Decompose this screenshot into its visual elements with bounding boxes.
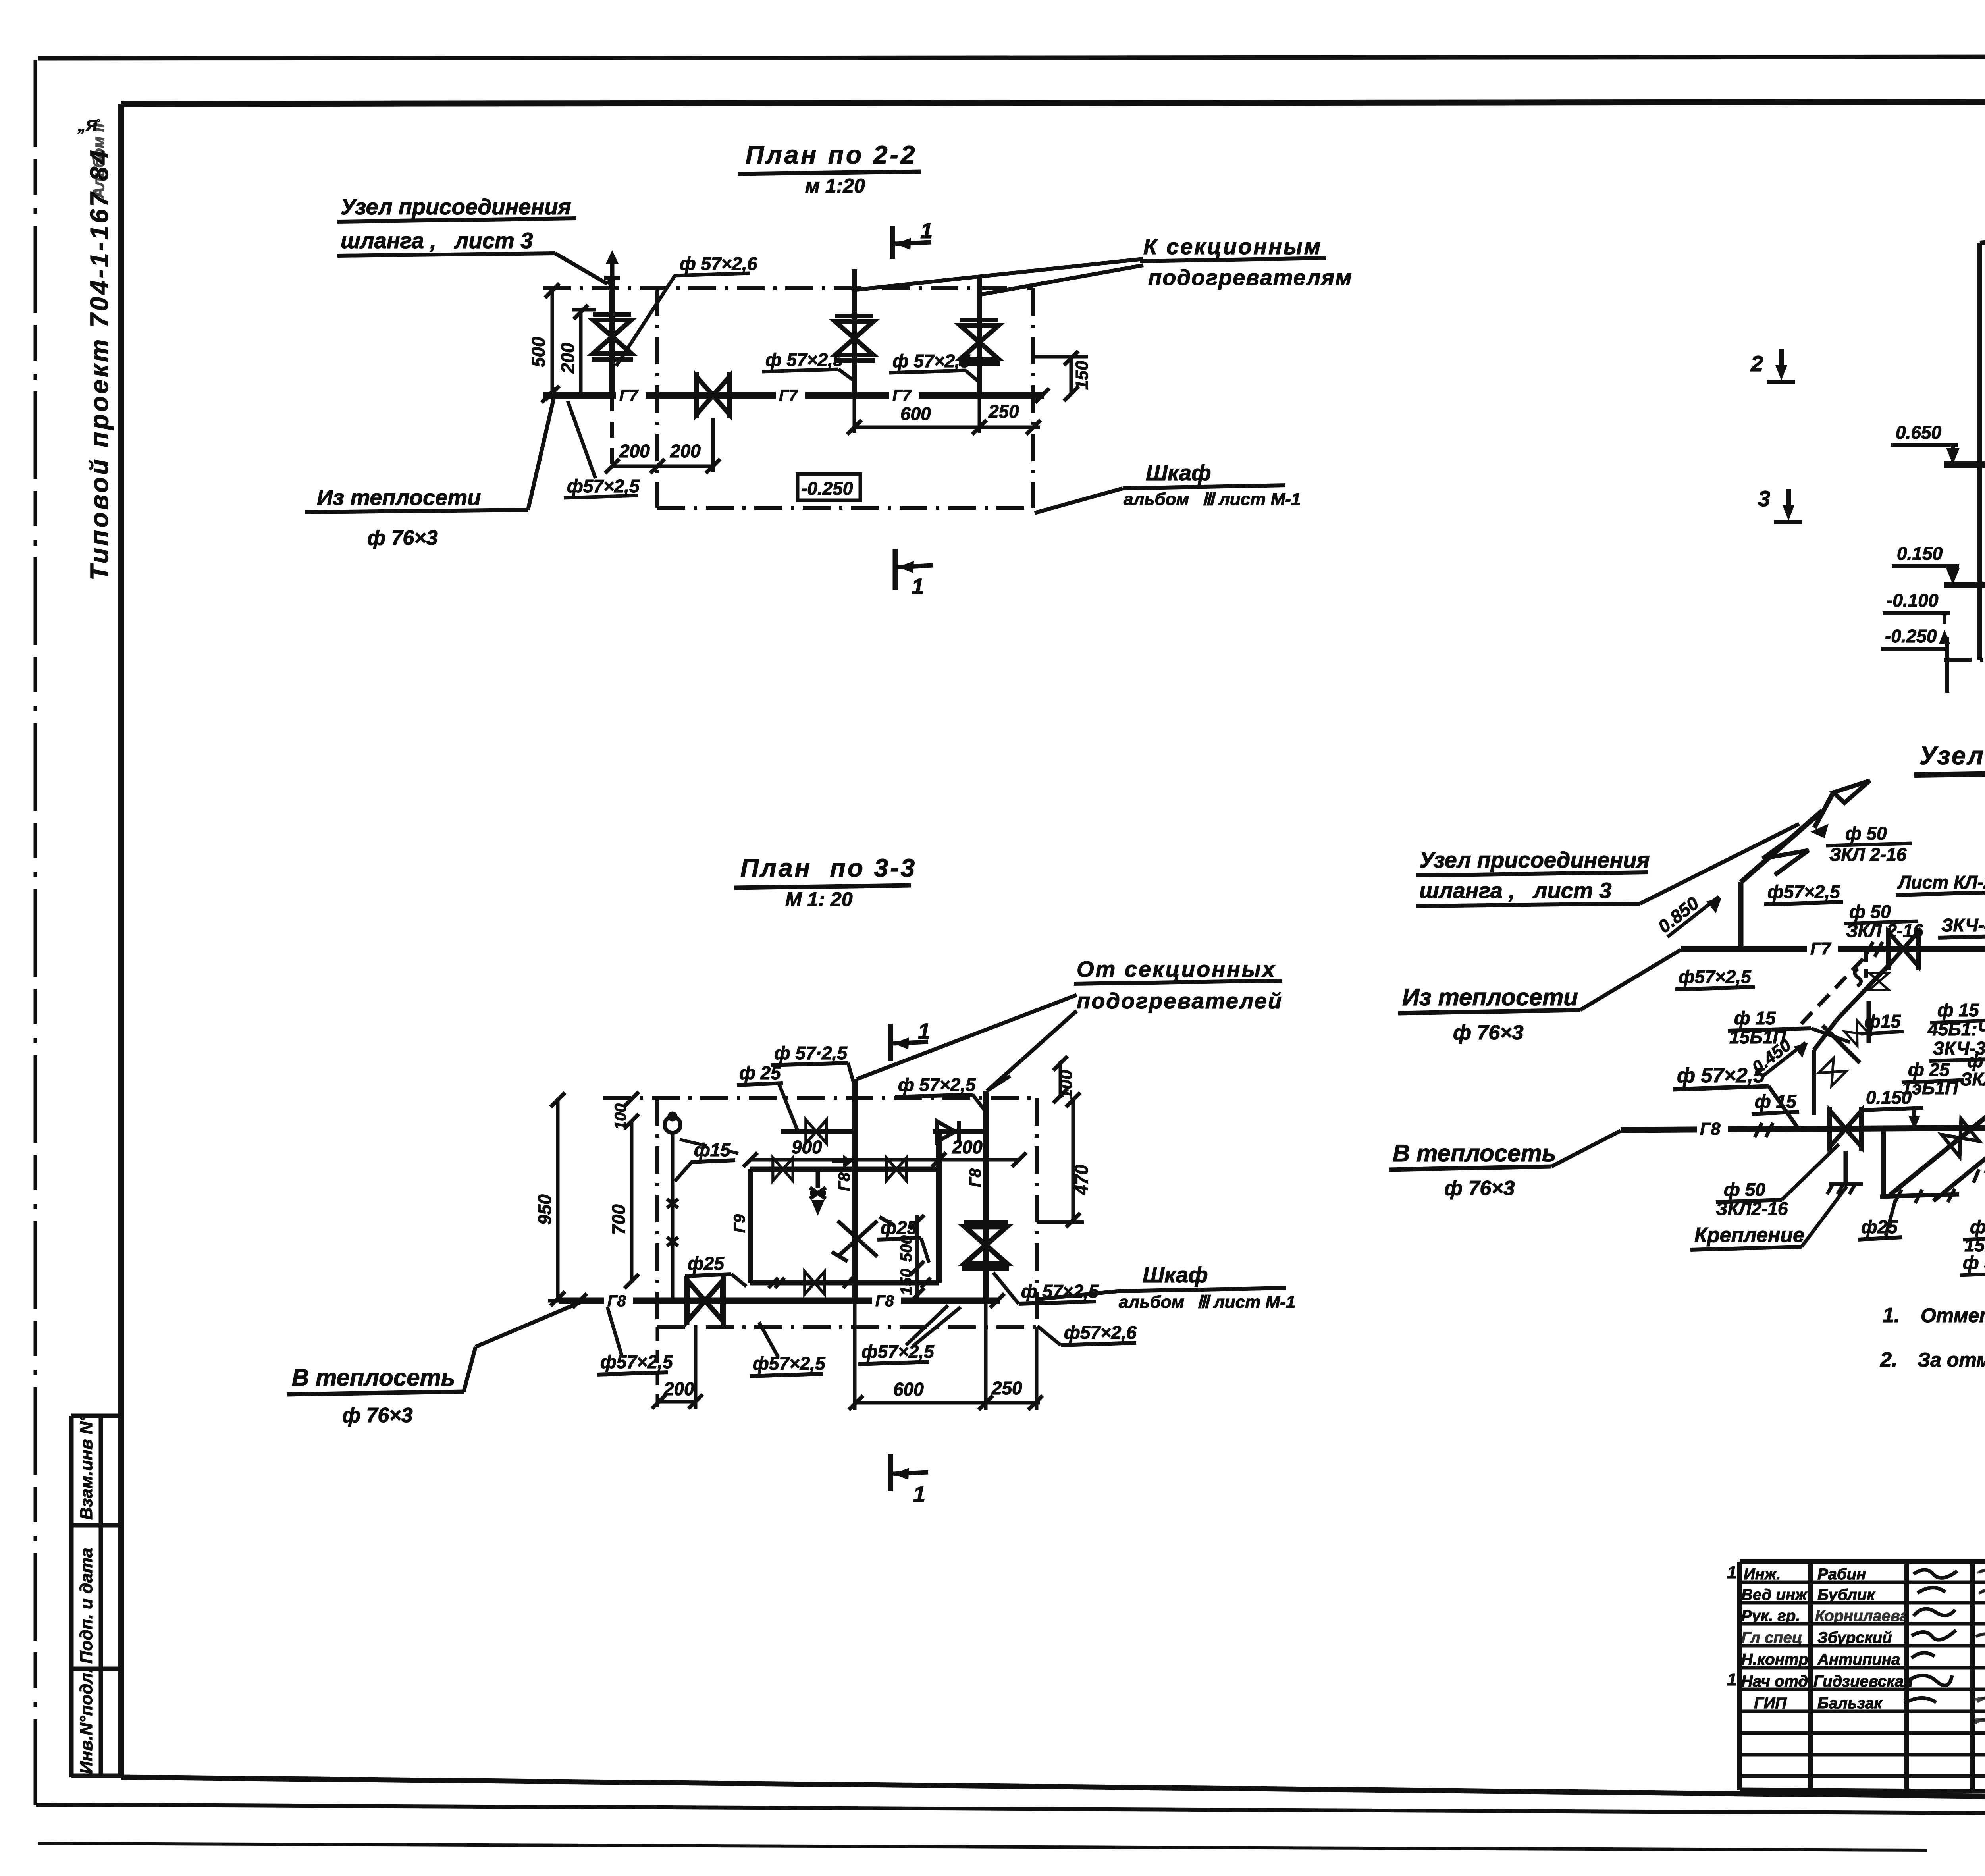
- left side cells table: [71, 1414, 121, 1418]
- instrument line ф15 left: [671, 1132, 675, 1301]
- signature squiggles: [1904, 1570, 1957, 1703]
- outer left border line (broken scan line): [34, 60, 37, 1805]
- main return line Г8: [1621, 1127, 1985, 1130]
- svg-text:1: 1: [920, 218, 933, 243]
- branch 3 riser: [977, 278, 982, 395]
- svg-text:Узел управления :: Узел управления :: [1919, 741, 1985, 770]
- middle impulse knot: [1800, 959, 1863, 1026]
- svg-text:Гидзиевская: Гидзиевская: [1813, 1673, 1913, 1690]
- svg-text:Г8: Г8: [836, 1172, 853, 1191]
- hose connection Z symbol: [1763, 834, 1808, 875]
- cabinet dash-dot outline: [543, 286, 1033, 290]
- svg-text:Крепление: Крепление: [1694, 1224, 1804, 1247]
- main bottom pipe Г8: [559, 1298, 1000, 1304]
- svg-text:ЗКЛ 2-16: ЗКЛ 2-16: [1829, 844, 1907, 865]
- svg-text:-0.100: -0.100: [1887, 590, 1939, 611]
- svg-text:0.650: 0.650: [1896, 422, 1942, 443]
- svg-text:Шкаф: Шкаф: [1146, 460, 1211, 485]
- svg-text:Из теплосети: Из теплосети: [1402, 984, 1578, 1010]
- svg-text:100: 100: [1056, 1070, 1076, 1099]
- svg-text:200: 200: [619, 441, 650, 461]
- svg-text:ф 25: ф 25: [739, 1062, 781, 1083]
- tank outline: [1977, 243, 1982, 660]
- svg-text:200: 200: [663, 1379, 694, 1399]
- cross symbol ф25: [832, 1217, 894, 1261]
- svg-text:подогревателей: подогревателей: [1077, 988, 1283, 1013]
- main frame rectangle: [121, 101, 1985, 104]
- svg-text:Типовой проект 704-1-167 84: Типовой проект 704-1-167 84: [85, 148, 114, 580]
- svg-text:ф 57×3: ф 57×3: [1963, 1252, 1985, 1273]
- svg-text:200: 200: [670, 441, 701, 461]
- svg-text:600: 600: [900, 403, 931, 424]
- svg-text:ф57×2,5: ф57×2,5: [600, 1352, 673, 1372]
- svg-text:В теплосеть: В теплосеть: [292, 1364, 455, 1391]
- svg-text:Ⅲ лист М-1: Ⅲ лист М-1: [1197, 1292, 1295, 1312]
- svg-text:ф 50: ф 50: [1849, 901, 1891, 922]
- svg-text:ф 5о: ф 5о: [1967, 1051, 1985, 1071]
- svg-text:ф57×2,5: ф57×2,5: [753, 1353, 826, 1374]
- svg-text:Нач отд: Нач отд: [1741, 1673, 1808, 1690]
- svg-text:950: 950: [534, 1194, 555, 1225]
- svg-text:100: 100: [612, 1103, 629, 1130]
- svg-text:За отметку 0.000 принята отмет: За отметку 0.000 принята отметка окрайки…: [1918, 1349, 1985, 1371]
- svg-text:3: 3: [1758, 486, 1770, 511]
- riser V4: [936, 1132, 942, 1283]
- support under valve: [1844, 1151, 1848, 1184]
- extra parallel diagonal run: [1933, 1101, 1985, 1201]
- outer top border line: [38, 56, 1985, 58]
- svg-text:Гл спец: Гл спец: [1741, 1629, 1802, 1647]
- svg-text:ф57×2,5: ф57×2,5: [567, 476, 640, 496]
- gate valve on bottom pipe: [688, 1281, 723, 1321]
- svg-text:Вед инж: Вед инж: [1741, 1586, 1808, 1604]
- dim 600 / 250: [853, 395, 856, 433]
- svg-text:500: 500: [898, 1235, 915, 1262]
- section marker 1 top: [888, 1024, 893, 1061]
- svg-text:ф 50: ф 50: [1845, 823, 1887, 844]
- svg-text:1: 1: [913, 1481, 925, 1506]
- svg-text:ф 57×2,5: ф 57×2,5: [765, 349, 844, 370]
- svg-text:2.: 2.: [1880, 1348, 1897, 1371]
- leader to flag: [1640, 824, 1799, 904]
- svg-text:ф 76×3: ф 76×3: [1453, 1021, 1524, 1044]
- svg-text:Рук. гр.: Рук. гр.: [1741, 1607, 1800, 1625]
- svg-text:Корнилаева: Корнилаева: [1815, 1607, 1909, 1625]
- main pipe Г7: [543, 392, 1044, 399]
- svg-text:План по 2-2: План по 2-2: [746, 141, 917, 169]
- svg-text:ф 76×3: ф 76×3: [1444, 1177, 1515, 1200]
- svg-text:М 1: 20: М 1: 20: [785, 888, 853, 910]
- cabinet dash-dot outline: [603, 1096, 1037, 1100]
- svg-text:Г7: Г7: [619, 387, 639, 405]
- svg-text:Г7: Г7: [892, 387, 912, 405]
- dims right: 470 / 500 / 150: [1072, 1098, 1075, 1222]
- signature table row lines: [1740, 1581, 1985, 1584]
- svg-text:Отметки трубопроводов в шка: Отметки трубопроводов в шкафу указаны по…: [1921, 1304, 1985, 1327]
- svg-text:Г7: Г7: [779, 387, 798, 405]
- mid horizontal pipe: [750, 1167, 939, 1172]
- svg-text:Г9: Г9: [731, 1214, 748, 1233]
- branch 1 valve: [593, 320, 631, 353]
- svg-text:Г8: Г8: [967, 1168, 984, 1187]
- svg-text:ЗКЛ2-16: ЗКЛ2-16: [1960, 1069, 1985, 1089]
- svg-text:ф 15: ф 15: [1755, 1091, 1797, 1112]
- svg-text:шланга , лист 3: шланга , лист 3: [341, 228, 533, 253]
- vertical branch V1 (to heaters): [852, 1079, 858, 1301]
- svg-text:150: 150: [1072, 361, 1092, 390]
- svg-text:Подп. и дата: Подп. и дата: [77, 1548, 96, 1664]
- V2 valve: [965, 1227, 1007, 1263]
- dims left: 950 / 700 / 100: [556, 1098, 560, 1301]
- svg-text:1: 1: [912, 574, 924, 599]
- dim 500 vertical: [551, 288, 554, 395]
- svg-text:ф 15: ф 15: [1937, 1000, 1979, 1020]
- svg-text:ф 15: ф 15: [1734, 1008, 1776, 1028]
- svg-text:Г7: Г7: [1810, 939, 1832, 958]
- svg-text:ЗКЛ2-16: ЗКЛ2-16: [1716, 1198, 1788, 1219]
- dim 100 top right: [1059, 1061, 1062, 1098]
- main line Г7: [1681, 946, 1985, 952]
- svg-text:В теплосеть: В теплосеть: [1393, 1140, 1556, 1166]
- svg-text:1: 1: [1727, 1670, 1736, 1689]
- svg-text:К секционным: К секционным: [1143, 234, 1322, 259]
- vertical branch V2 (right): [983, 1091, 989, 1301]
- branch 2 riser: [852, 269, 857, 395]
- svg-text:1: 1: [918, 1018, 930, 1043]
- riser V3 Г9: [748, 1169, 753, 1283]
- svg-text:ф 25: ф 25: [1908, 1059, 1950, 1080]
- svg-text:Г8: Г8: [875, 1292, 894, 1310]
- hatch on Г7: [1865, 942, 1883, 957]
- svg-text:ф25: ф25: [688, 1253, 725, 1274]
- svg-text:ф15: ф15: [1864, 1011, 1901, 1032]
- svg-text:-0.250: -0.250: [801, 478, 853, 499]
- dashed drop from branch1 below pipe: [610, 395, 614, 470]
- svg-text:ф 57×2,5: ф 57×2,5: [1677, 1064, 1765, 1087]
- svg-text:Г8: Г8: [607, 1292, 626, 1310]
- svg-text:Антипина: Антипина: [1817, 1651, 1900, 1668]
- svg-text:-0.250: -0.250: [1885, 626, 1937, 646]
- svg-text:0.150: 0.150: [1897, 543, 1943, 564]
- svg-text:Инж.: Инж.: [1744, 1566, 1781, 1583]
- svg-text:Рабин: Рабин: [1817, 1566, 1866, 1583]
- svg-text:Бублик: Бублик: [1817, 1586, 1875, 1604]
- leaders: [857, 995, 1077, 1079]
- svg-text:500: 500: [528, 337, 549, 367]
- black valve with stem: [832, 1155, 852, 1169]
- dims bottom 200 / 600 / 250: [656, 1327, 659, 1410]
- title block top edge: [1740, 1559, 1985, 1564]
- signature table verticals: [1737, 1562, 1742, 1790]
- section marker 1 bottom: [888, 1454, 893, 1491]
- svg-text:ф 57·2,5: ф 57·2,5: [774, 1043, 848, 1063]
- svg-text:ф 57×2,6: ф 57×2,6: [680, 253, 757, 274]
- leaders to branches 2,3: [856, 259, 1143, 290]
- svg-text:1: 1: [1727, 1563, 1736, 1582]
- svg-text:0.150: 0.150: [1866, 1087, 1912, 1108]
- svg-text:ф 76×3: ф 76×3: [367, 526, 438, 549]
- svg-text:Взам.инв N°: Взам.инв N°: [77, 1415, 96, 1520]
- svg-text:Инв.N°подл.: Инв.N°подл.: [77, 1668, 96, 1774]
- svg-text:900: 900: [792, 1137, 822, 1157]
- lower drop and -0.100 line: [1881, 1129, 1886, 1196]
- dim 150 right: [1033, 355, 1088, 359]
- bottom of signature table: [1740, 1790, 1985, 1791]
- dim 900 / 200: [750, 1158, 1019, 1162]
- branch 1 top arrow: [604, 260, 620, 278]
- svg-text:ф57×2,5: ф57×2,5: [1679, 966, 1752, 987]
- outer bottom border line: [36, 1805, 1985, 1816]
- svg-text:250: 250: [991, 1378, 1022, 1398]
- upper bypass stubs with valves: [781, 1129, 855, 1134]
- gate valve on main pipe: [696, 376, 730, 415]
- svg-text:подогревателям: подогревателям: [1148, 265, 1353, 290]
- svg-text:ф 57×2,5: ф 57×2,5: [892, 351, 971, 371]
- svg-text:200: 200: [952, 1137, 983, 1157]
- svg-text:Шкаф: Шкаф: [1143, 1262, 1208, 1287]
- svg-text:шланга , лист 3: шланга , лист 3: [1419, 878, 1611, 903]
- dim line 200/200 below pipe: [612, 465, 715, 468]
- section marker 1 bottom: [893, 549, 898, 590]
- elevation box -0.250: [798, 474, 860, 500]
- svg-text:ф25: ф25: [1861, 1217, 1898, 1237]
- stray bottom scan line: [38, 1843, 1927, 1850]
- svg-text:150: 150: [898, 1269, 915, 1295]
- svg-text:альбом: альбом: [1124, 490, 1189, 509]
- dim 200 vertical: [579, 310, 583, 395]
- bottom inner pipe: [750, 1280, 939, 1286]
- vent flag: [1814, 792, 1833, 828]
- svg-text:ЗКЧ-46-70: ЗКЧ-46-70: [1941, 915, 1985, 935]
- branch 1 riser: [609, 278, 615, 395]
- upper pipe Г7: [1944, 461, 1985, 468]
- svg-text:45Б1:ЧЖ: 45Б1:ЧЖ: [1927, 1019, 1985, 1039]
- section marker 1 top: [890, 226, 895, 259]
- svg-text:1.: 1.: [1883, 1304, 1900, 1327]
- svg-text:Збурский: Збурский: [1817, 1629, 1892, 1647]
- svg-text:ф57×2,5: ф57×2,5: [1767, 881, 1840, 902]
- svg-text:От секционных: От секционных: [1077, 956, 1276, 981]
- svg-text:ф57×2,5: ф57×2,5: [861, 1341, 935, 1362]
- svg-text:ф 76×3: ф 76×3: [342, 1404, 413, 1427]
- svg-text:План по 3-3: План по 3-3: [740, 854, 917, 882]
- svg-text:„Я̊: „Я̊: [77, 117, 100, 135]
- svg-text:ГИП: ГИП: [1754, 1695, 1787, 1712]
- svg-text:200: 200: [557, 343, 578, 374]
- gate valve on Г7: [1888, 932, 1918, 966]
- svg-text:Из теплосети: Из теплосети: [317, 485, 481, 510]
- svg-text:ф 15: ф 15: [1970, 1217, 1985, 1237]
- svg-text:ф 57×2,5: ф 57×2,5: [898, 1074, 976, 1095]
- svg-text:Узел присоединения: Узел присоединения: [341, 194, 571, 219]
- svg-text:600: 600: [893, 1379, 924, 1400]
- svg-text:ф 50: ф 50: [1724, 1179, 1765, 1200]
- svg-text:м 1:20: м 1:20: [805, 175, 865, 197]
- svg-text:Бальзак: Бальзак: [1817, 1695, 1883, 1712]
- svg-text:Н.контр: Н.контр: [1741, 1651, 1808, 1668]
- svg-text:700: 700: [608, 1204, 629, 1235]
- svg-text:2: 2: [1750, 351, 1763, 376]
- svg-text:470: 470: [1071, 1165, 1092, 1195]
- svg-text:250: 250: [988, 401, 1019, 422]
- lower pipe Г8: [1944, 582, 1985, 588]
- svg-text:Лист КЛ-2: Лист КЛ-2: [1897, 872, 1985, 893]
- svg-text:Узел присоединения: Узел присоединения: [1419, 847, 1650, 872]
- svg-text:ЗКЛ 2-16: ЗКЛ 2-16: [1846, 920, 1923, 941]
- riser and diagonal to flag: [1738, 882, 1744, 949]
- svg-text:Ⅲ лист М-1: Ⅲ лист М-1: [1202, 490, 1301, 509]
- svg-text:ф57×2,6: ф57×2,6: [1064, 1322, 1137, 1343]
- svg-text:альбом: альбом: [1119, 1292, 1184, 1312]
- svg-text:Г8: Г8: [1700, 1119, 1721, 1139]
- gate valve on Г8: [1830, 1111, 1862, 1147]
